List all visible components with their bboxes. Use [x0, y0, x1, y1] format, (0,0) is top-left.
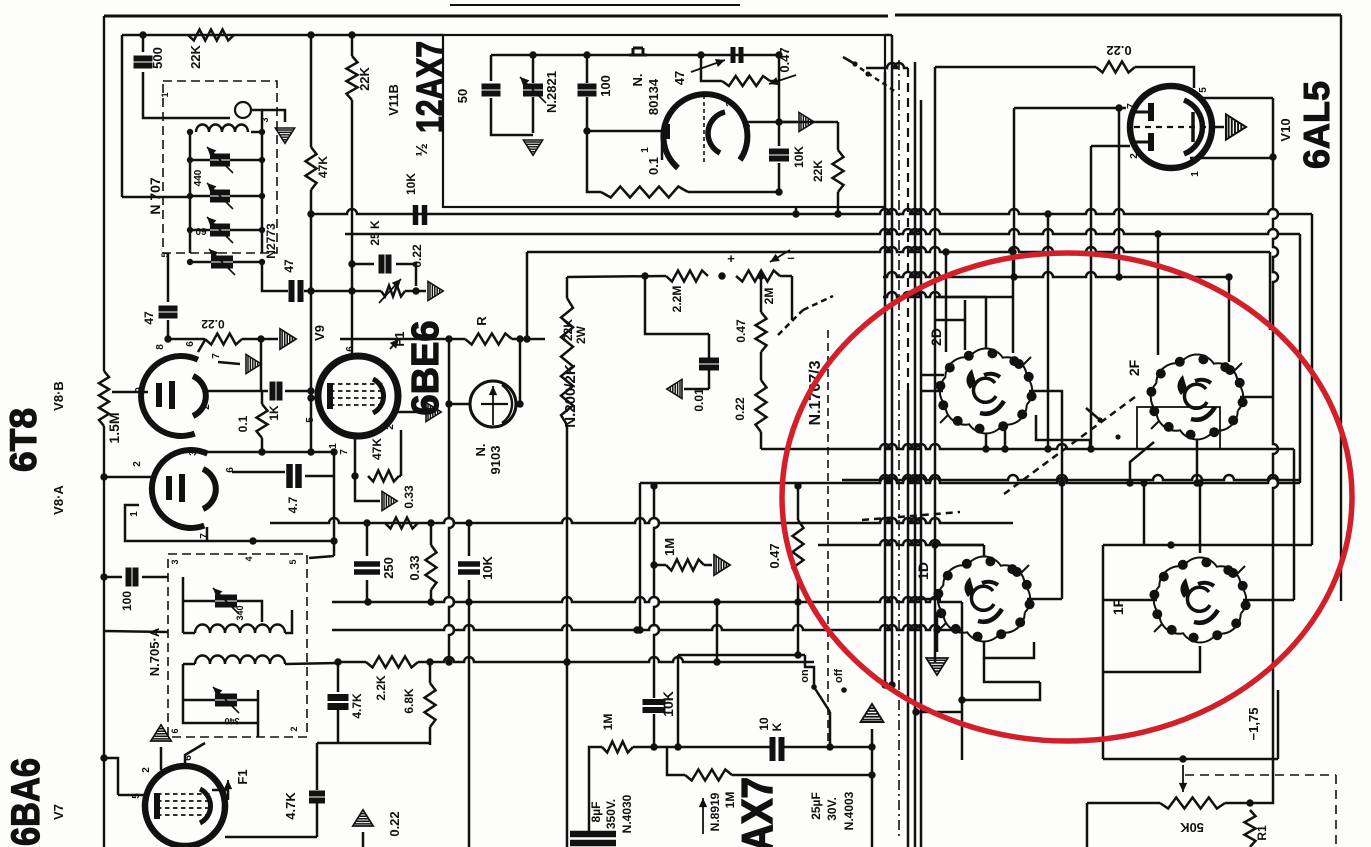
svg-text:4.7: 4.7	[286, 496, 300, 513]
wire	[104, 631, 168, 632]
svg-text:2: 2	[132, 461, 143, 467]
wire	[837, 192, 840, 214]
resistor 22K	[347, 56, 358, 100]
wire	[1004, 430, 1007, 449]
wire	[449, 403, 471, 406]
ground	[151, 725, 171, 741]
switch box 2F	[1137, 407, 1220, 449]
circuit box	[443, 35, 885, 207]
svg-text:0.22: 0.22	[733, 397, 747, 421]
wire	[935, 296, 986, 299]
svg-text:350V.: 350V.	[604, 799, 618, 829]
wire	[337, 662, 340, 692]
arrow F1	[227, 780, 229, 800]
svg-text:2.2M: 2.2M	[670, 286, 684, 313]
wire	[1086, 803, 1089, 847]
svg-text:½: ½	[414, 143, 431, 156]
wire	[304, 290, 348, 293]
svg-text:7: 7	[199, 533, 210, 539]
junction	[516, 335, 523, 342]
wire	[232, 471, 285, 474]
resistor 1M low	[602, 742, 633, 753]
page edge line	[450, 4, 740, 6]
wire	[760, 276, 763, 312]
rotary switch 2F	[1146, 354, 1247, 439]
svg-text:6: 6	[345, 346, 356, 352]
wire	[567, 276, 666, 277]
svg-text:7: 7	[339, 449, 350, 455]
svg-text:100: 100	[598, 75, 613, 97]
junction	[523, 335, 530, 342]
top border right	[895, 14, 1341, 17]
junction	[516, 400, 523, 407]
svg-text:2: 2	[1129, 153, 1140, 159]
wire	[183, 600, 215, 603]
svg-text:1K: 1K	[267, 405, 281, 421]
svg-text:0.1: 0.1	[236, 415, 250, 432]
junction	[348, 287, 355, 294]
wire	[1103, 544, 1312, 547]
junction	[330, 537, 337, 544]
wire	[1196, 440, 1199, 483]
wire	[261, 438, 264, 452]
junction	[445, 335, 452, 342]
resistor 2.2M	[666, 271, 708, 282]
wire	[797, 486, 800, 520]
svg-text:4.7K: 4.7K	[350, 693, 364, 719]
svg-text:V10: V10	[1278, 118, 1293, 141]
wire	[257, 690, 260, 737]
wire	[1013, 108, 1016, 277]
wire	[285, 390, 311, 393]
wire	[985, 434, 988, 449]
svg-text:0.33: 0.33	[402, 485, 416, 509]
wire	[708, 369, 711, 389]
wire	[586, 97, 589, 143]
junction	[139, 31, 146, 38]
wire	[183, 700, 258, 723]
coil L1	[235, 102, 251, 118]
svg-text:10K: 10K	[404, 173, 418, 195]
dashed rect side	[1335, 775, 1337, 847]
svg-text:8µF: 8µF	[589, 802, 603, 823]
capacitor 340b	[215, 697, 237, 704]
wire	[218, 362, 240, 364]
wire	[468, 580, 471, 847]
junction	[307, 448, 314, 455]
trimmer arrow 60	[207, 183, 233, 209]
svg-text:N.2821: N.2821	[544, 71, 559, 113]
var arrow	[379, 279, 401, 303]
svg-text:N.705·A: N.705·A	[147, 627, 162, 676]
wire	[366, 523, 369, 556]
svg-text:2F: 2F	[1126, 359, 1142, 376]
arrow 2M	[770, 250, 790, 262]
resistor 0.47	[756, 312, 767, 352]
wire	[829, 712, 832, 747]
junction	[412, 287, 419, 294]
wire	[936, 612, 939, 652]
ground	[926, 658, 948, 675]
dashed link	[1000, 397, 1135, 497]
svg-text:10K: 10K	[660, 691, 676, 717]
svg-text:9103: 9103	[488, 446, 503, 475]
wire	[1103, 758, 1278, 761]
wire	[333, 452, 336, 556]
svg-text:5: 5	[1198, 87, 1209, 93]
junction	[1196, 479, 1203, 486]
capacitor 8uF	[570, 834, 616, 843]
wire	[688, 191, 779, 194]
junction	[931, 541, 938, 548]
capacitor 60	[210, 193, 230, 200]
svg-text:6BA6: 6BA6	[4, 758, 48, 846]
tube V9 6BE6	[318, 356, 398, 436]
ground	[1226, 114, 1246, 139]
ground	[275, 128, 294, 143]
wire	[1061, 483, 1064, 599]
wire	[468, 523, 471, 556]
wire	[1293, 449, 1296, 600]
wire	[866, 63, 908, 68]
junction	[811, 684, 817, 690]
svg-text:N.: N.	[630, 74, 645, 87]
wire	[1029, 391, 1062, 483]
junction	[775, 51, 782, 58]
junction	[259, 227, 265, 233]
svg-text:2.2K: 2.2K	[374, 675, 388, 701]
junction	[1044, 445, 1051, 452]
resistor 0.1	[601, 187, 688, 198]
junction	[1058, 479, 1065, 486]
svg-text:V11B: V11B	[386, 84, 401, 116]
wire	[429, 662, 432, 683]
wire	[1190, 157, 1271, 160]
resistor N.200/2K	[561, 298, 573, 425]
ground	[280, 329, 296, 349]
antenna jack	[629, 48, 647, 55]
junction	[1115, 273, 1122, 280]
svg-text:2W: 2W	[574, 325, 588, 344]
junction	[257, 335, 264, 342]
svg-text:47K: 47K	[370, 438, 384, 460]
wire	[945, 252, 948, 352]
wire	[1135, 67, 1194, 88]
ground	[382, 491, 397, 510]
junction	[757, 272, 764, 279]
svg-text:0.22: 0.22	[201, 317, 225, 331]
svg-text:2: 2	[289, 726, 299, 731]
wire	[167, 320, 170, 339]
rail	[430, 657, 814, 662]
wire	[837, 122, 840, 150]
wire	[921, 598, 941, 601]
wire	[182, 664, 185, 700]
wire	[316, 803, 319, 837]
wire	[305, 475, 334, 478]
tube V8-B	[141, 356, 206, 436]
wire	[183, 699, 215, 702]
junction	[868, 743, 875, 750]
capacitor 500	[134, 59, 153, 66]
wire	[285, 663, 338, 664]
junction	[775, 188, 782, 195]
wire	[237, 601, 262, 622]
resistor 0.47r	[722, 76, 770, 86]
rail	[883, 292, 1013, 297]
rail	[270, 518, 1013, 523]
dashed link	[862, 512, 960, 520]
svg-text:440: 440	[193, 169, 204, 186]
svg-text:80134: 80134	[646, 78, 661, 115]
wire	[354, 433, 357, 476]
svg-text:2: 2	[201, 404, 212, 410]
junction	[563, 658, 570, 665]
capacitor 1K	[273, 382, 280, 401]
wire	[366, 580, 369, 602]
junction	[187, 193, 193, 199]
wire	[190, 229, 210, 232]
svg-text:22K: 22K	[561, 319, 575, 341]
junction	[164, 335, 171, 342]
junction	[982, 445, 989, 452]
rail	[818, 540, 984, 545]
svg-text:3: 3	[170, 559, 180, 564]
wire	[779, 121, 797, 124]
junction	[1269, 153, 1276, 160]
trimmer arrow 340a	[213, 588, 239, 614]
wire	[142, 35, 145, 52]
wire	[708, 352, 711, 360]
junction	[259, 157, 265, 163]
wire	[1250, 759, 1273, 803]
wire	[587, 143, 601, 192]
junction	[1087, 445, 1094, 452]
junction	[1167, 541, 1174, 548]
rail	[345, 229, 1300, 234]
wire	[797, 602, 800, 655]
wire	[212, 790, 228, 800]
capacitor 100	[578, 87, 597, 94]
svg-text:47K: 47K	[316, 156, 330, 178]
wire	[962, 682, 1040, 700]
capacitor trim	[210, 227, 230, 234]
switch lever	[843, 57, 855, 64]
resistor 0.22	[205, 334, 242, 345]
svg-text:1: 1	[160, 92, 170, 97]
wire	[104, 758, 118, 795]
wire	[985, 297, 988, 348]
arrow F1 V9	[390, 339, 399, 349]
wire	[285, 610, 292, 633]
wire	[515, 403, 520, 406]
wire	[310, 190, 313, 398]
resistor 1M	[666, 560, 704, 571]
ground	[861, 704, 884, 722]
svg-text:50K: 50K	[1179, 820, 1203, 835]
wire	[708, 334, 711, 352]
wire	[340, 338, 465, 341]
junction	[1126, 479, 1133, 486]
capacitor 10K low	[643, 702, 666, 710]
svg-text:0.47: 0.47	[734, 319, 748, 343]
junction	[868, 771, 875, 778]
capacitor 10K	[769, 152, 789, 159]
junction	[529, 51, 536, 58]
wire	[916, 711, 962, 714]
junction	[307, 287, 314, 294]
junction	[641, 272, 648, 279]
wire	[183, 663, 195, 666]
resistor 50K	[1160, 798, 1225, 809]
svg-text:on: on	[799, 669, 811, 683]
junction	[958, 696, 965, 703]
svg-text:N.4003: N.4003	[842, 791, 856, 830]
svg-text:6.8K: 6.8K	[402, 688, 416, 714]
resistor 4.7K 2.2K	[366, 657, 418, 668]
svg-text:1: 1	[640, 147, 651, 153]
capacitor 250	[354, 564, 380, 572]
svg-text:500: 500	[150, 47, 165, 69]
wire	[783, 746, 872, 749]
resistor 0.33b	[426, 545, 437, 590]
junction	[100, 473, 107, 480]
switch lever	[814, 687, 830, 712]
resistor 0.22 top	[1096, 62, 1135, 73]
wire	[778, 55, 781, 146]
wire	[230, 159, 262, 162]
ground	[799, 112, 814, 131]
coil box N705-A	[168, 554, 307, 737]
bus wire	[914, 62, 917, 847]
wire	[1012, 252, 1015, 353]
bus wire	[891, 35, 894, 685]
svg-text:100: 100	[120, 591, 134, 611]
ground	[353, 810, 373, 826]
wire	[190, 261, 211, 264]
wire	[190, 159, 210, 162]
wire	[317, 742, 430, 745]
coil N707	[196, 125, 248, 133]
wire	[984, 658, 1040, 682]
wire	[1243, 599, 1294, 602]
coil N705 primary	[195, 624, 285, 633]
wire	[704, 564, 712, 567]
wire	[566, 277, 569, 298]
wire	[125, 505, 334, 541]
svg-text:0.01: 0.01	[692, 388, 706, 412]
svg-text:0.33: 0.33	[407, 555, 422, 580]
junction	[826, 743, 833, 750]
svg-text:0.22: 0.22	[1106, 43, 1131, 58]
resistor 47K	[306, 147, 317, 190]
svg-text:F1: F1	[235, 769, 250, 784]
wire	[142, 576, 168, 579]
dash-dot shield line	[898, 60, 900, 840]
junction	[259, 193, 265, 199]
wire	[310, 398, 313, 452]
svg-text:1M: 1M	[601, 714, 615, 731]
arrow	[702, 798, 704, 834]
wire	[160, 747, 163, 770]
wire	[260, 339, 263, 391]
dashed line	[827, 330, 829, 745]
svg-text:K: K	[770, 722, 784, 731]
wire	[112, 391, 148, 394]
ground	[667, 379, 682, 398]
wire	[351, 100, 354, 356]
junction	[697, 51, 704, 58]
wire	[142, 72, 145, 90]
svg-text:3: 3	[260, 117, 270, 122]
capacitor 47	[292, 280, 301, 302]
resistor N.8919 1M	[685, 770, 732, 781]
rail	[883, 272, 1229, 277]
wire	[964, 300, 967, 350]
resistor 6.8K	[425, 683, 436, 727]
wire	[429, 727, 432, 745]
svg-text:2: 2	[385, 424, 396, 430]
svg-text:6AL5: 6AL5	[1296, 81, 1337, 169]
wire	[262, 110, 285, 122]
wire	[921, 374, 944, 377]
wire	[935, 544, 984, 547]
wire	[661, 131, 664, 160]
svg-text:V9: V9	[312, 325, 327, 341]
trimmer arrow 440	[207, 147, 233, 173]
svg-text:2D: 2D	[928, 328, 944, 346]
svg-text:3: 3	[189, 448, 199, 453]
junction	[1009, 248, 1016, 255]
rail	[332, 597, 962, 602]
junction	[426, 658, 433, 665]
capacitor N2773	[211, 259, 233, 266]
capacitor 47	[733, 47, 741, 63]
junction	[794, 598, 801, 605]
wire	[396, 264, 416, 286]
junction	[1115, 104, 1122, 111]
resistor R	[465, 334, 512, 345]
capacitor 10 K	[773, 737, 782, 761]
junction	[650, 561, 657, 568]
wire	[1102, 545, 1105, 759]
wire	[677, 655, 680, 747]
wire	[352, 263, 374, 266]
svg-text:1: 1	[1190, 171, 1201, 177]
junction	[465, 598, 472, 605]
wire	[1143, 483, 1146, 545]
rail	[640, 478, 1300, 483]
tube V10 6AL5	[1130, 86, 1212, 168]
junction	[1193, 479, 1200, 486]
wire	[760, 357, 763, 380]
svg-text:12AX7: 12AX7	[733, 777, 782, 847]
junction	[465, 519, 472, 526]
svg-text:V7: V7	[51, 804, 66, 820]
tube V8-A	[152, 450, 216, 528]
svg-text:50: 50	[455, 89, 470, 103]
junction	[364, 598, 371, 605]
ground	[428, 281, 443, 300]
svg-text:R: R	[474, 316, 489, 326]
svg-text:N.: N.	[473, 444, 488, 457]
svg-text:10K: 10K	[480, 555, 495, 579]
junction	[249, 537, 256, 544]
svg-text:1: 1	[328, 443, 339, 449]
svg-text:2: 2	[704, 92, 715, 98]
wire	[1228, 277, 1231, 362]
wire	[732, 774, 872, 777]
